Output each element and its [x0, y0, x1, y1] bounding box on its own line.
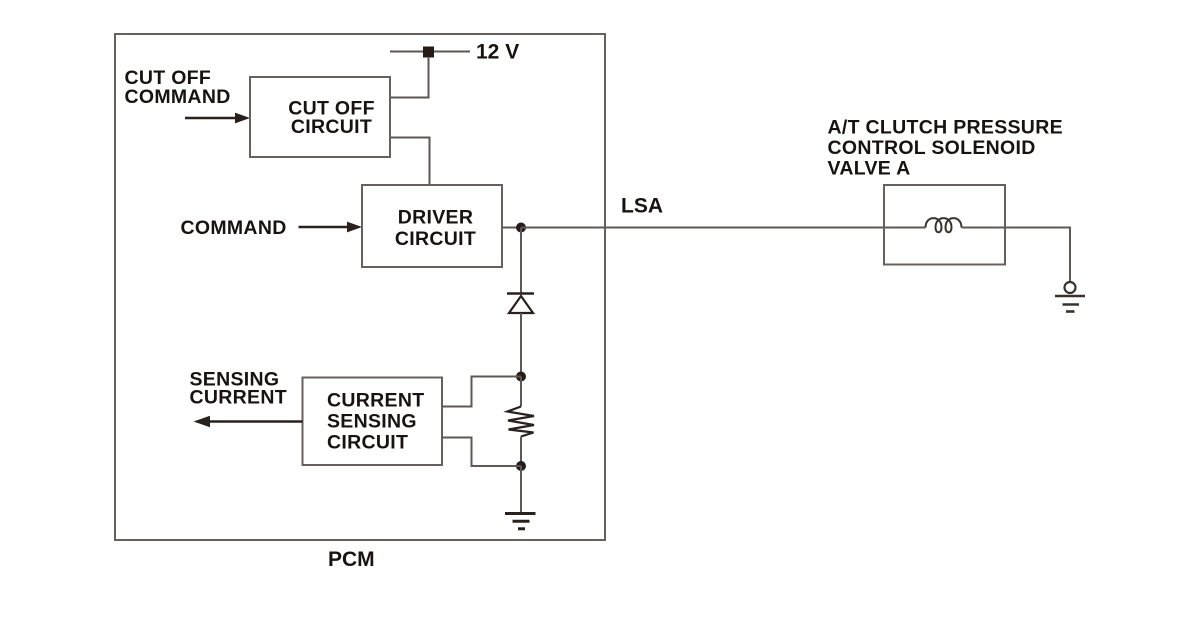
- 12V node square: [423, 47, 434, 58]
- PCM enclosure box: [115, 34, 605, 540]
- chassis ground bars: [1055, 296, 1085, 312]
- wire cut off circuit to 12V node: [390, 57, 429, 98]
- wire current sensing top tap: [442, 377, 521, 407]
- cut off circuit box U1: [250, 77, 390, 157]
- sense resistor R1: [508, 407, 535, 437]
- PCM ground symbol: [505, 514, 536, 529]
- wire resistor to node 3: [520, 437, 522, 467]
- solenoid valve box: [884, 185, 1005, 265]
- junction node 2: [516, 372, 526, 382]
- chassis ground terminal circle: [1065, 282, 1076, 293]
- solenoid coil L1: [926, 218, 962, 232]
- svg-text:SENSINGCURRENT: SENSINGCURRENT: [190, 369, 287, 409]
- wire current sensing bottom tap: [442, 438, 521, 467]
- current sensing circuit box U3: [303, 378, 443, 466]
- wire LSA to solenoid: [521, 227, 926, 229]
- svg-text:DRIVERCIRCUIT: DRIVERCIRCUIT: [395, 207, 476, 251]
- svg-text:12 V: 12 V: [476, 41, 519, 64]
- junction node 3: [516, 461, 526, 471]
- diode D1 cathode bar: [507, 292, 534, 295]
- arrow into driver circuit: [299, 222, 363, 233]
- wire node 2 to resistor: [520, 377, 522, 407]
- wire diode to node 2: [520, 313, 522, 377]
- svg-text:LSA: LSA: [621, 195, 663, 218]
- wire driver circuit output: [502, 227, 521, 229]
- diode D1 triangle: [509, 296, 533, 313]
- wire solenoid to chassis ground: [962, 228, 1071, 283]
- junction node LSA: [516, 223, 526, 233]
- svg-text:CUT OFFCIRCUIT: CUT OFFCIRCUIT: [288, 98, 375, 139]
- arrow into cut off circuit: [185, 113, 250, 124]
- svg-text:COMMAND: COMMAND: [181, 217, 287, 239]
- 12V supply wire: [390, 51, 470, 53]
- wire node to diode: [520, 228, 522, 294]
- svg-text:PCM: PCM: [328, 548, 375, 571]
- arrow sensing current output: [194, 416, 303, 428]
- wire node 3 to ground: [520, 466, 522, 513]
- wire cut off circuit to driver circuit: [390, 138, 430, 186]
- driver circuit box U2: [362, 185, 502, 267]
